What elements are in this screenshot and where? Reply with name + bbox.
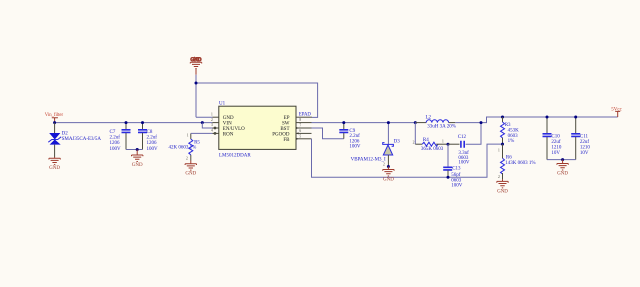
resistor R6: [498, 144, 536, 179]
IC U1 LM5012DDAR body: [219, 101, 296, 158]
svg-text:R3: R3: [505, 123, 511, 128]
node junction C7: [125, 121, 128, 124]
svg-text:2: 2: [186, 157, 188, 161]
pin 9 EP: [284, 116, 312, 121]
wire BST to C9: [312, 128, 344, 139]
svg-text:1210: 1210: [551, 145, 562, 150]
port Vin_filter: [45, 113, 64, 122]
ground top (IC GND / EPAD): [190, 58, 201, 75]
diode D3: [351, 123, 401, 167]
svg-text:100V: 100V: [349, 145, 361, 150]
svg-text:10V: 10V: [580, 151, 589, 156]
svg-text:2.2uf: 2.2uf: [147, 136, 158, 141]
resistor R5: [169, 133, 201, 160]
node junction C11/rail: [574, 116, 577, 119]
capacitor C12: [448, 123, 481, 166]
svg-text:22uf: 22uf: [580, 140, 590, 145]
svg-text:D3: D3: [394, 140, 401, 145]
svg-text:L2: L2: [426, 115, 432, 120]
svg-text:C8: C8: [147, 130, 153, 135]
svg-text:2.2uf: 2.2uf: [110, 136, 121, 141]
node junction D3/SW: [387, 121, 390, 124]
svg-text:SMAJ35CA-E3/5A: SMAJ35CA-E3/5A: [62, 137, 102, 142]
pin 4 RON: [211, 129, 234, 138]
capacitor C13: [443, 144, 463, 188]
node junction D3 gnd: [387, 165, 390, 168]
svg-text:EPAD: EPAD: [299, 113, 312, 118]
TVS diode D2: [48, 123, 101, 157]
svg-text:C10: C10: [551, 135, 560, 140]
node Vin junction at port: [53, 121, 56, 124]
svg-text:365K 0603: 365K 0603: [421, 147, 444, 152]
wire R5 to RON: [191, 132, 213, 134]
svg-text:SW: SW: [282, 122, 290, 127]
svg-text:C11: C11: [580, 135, 589, 140]
pin 2 VIN: [211, 118, 232, 127]
capacitor C7: [110, 123, 131, 152]
svg-text:1: 1: [187, 134, 189, 138]
wire L2 out to 5Vcc rail: [455, 117, 617, 123]
node C7/C8 gnd junction: [136, 148, 139, 151]
wire C10-C11 bottom: [547, 159, 576, 161]
svg-text:0603: 0603: [508, 134, 518, 139]
resistor R3: [501, 117, 520, 144]
wire VIN to EN/UVLO tie: [202, 123, 212, 128]
svg-text:VIN: VIN: [223, 122, 232, 127]
node junction C10/C11 gnd: [561, 158, 564, 161]
pin 6 PGOOD: [272, 129, 311, 137]
svg-text:143K 0603 1%: 143K 0603 1%: [505, 161, 535, 166]
node junction L2/R4 left: [414, 121, 417, 124]
svg-text:EP: EP: [284, 116, 290, 121]
pin 8 SW: [282, 118, 312, 126]
wire input rail: [55, 122, 213, 124]
svg-text:C7: C7: [110, 130, 116, 135]
node junction C8: [141, 121, 144, 124]
svg-text:10V: 10V: [551, 151, 560, 156]
svg-text:1206: 1206: [147, 141, 158, 146]
svg-text:100V: 100V: [451, 184, 463, 189]
node junction C12/rail: [480, 121, 483, 124]
svg-text:BST: BST: [280, 127, 289, 132]
svg-text:C13: C13: [452, 167, 461, 172]
wire FB run: [312, 139, 503, 178]
ground for D3: [383, 167, 394, 183]
pin 3 EN/UVLO: [211, 123, 245, 132]
node junction C9/SW: [342, 121, 345, 124]
svg-text:2: 2: [413, 140, 415, 144]
svg-text:RON: RON: [223, 132, 234, 137]
capacitor C10: [543, 117, 562, 160]
capacitor C8: [138, 123, 158, 152]
node junction R3/R6/FB: [501, 143, 504, 146]
svg-text:7: 7: [299, 124, 301, 128]
node junction C13/FB: [447, 176, 450, 179]
svg-text:56pf: 56pf: [451, 173, 461, 178]
capacitor C11: [571, 117, 590, 160]
svg-text:1210: 1210: [580, 145, 591, 150]
svg-text:1: 1: [442, 140, 444, 144]
svg-text:2: 2: [498, 175, 500, 179]
svg-text:FB: FB: [283, 138, 290, 143]
port 5Vcc: [611, 107, 622, 117]
pin 7 BST: [280, 124, 311, 132]
svg-text:R4: R4: [423, 138, 429, 143]
svg-text:1: 1: [211, 112, 213, 116]
svg-text:453K: 453K: [508, 128, 519, 133]
wire GND to pin1 and EPAD: [196, 75, 318, 118]
ground for C10/C11: [557, 160, 568, 177]
svg-text:3: 3: [211, 123, 213, 127]
svg-text:42K 0603 1%: 42K 0603 1%: [169, 145, 197, 150]
wire SW rail: [312, 122, 416, 124]
resistor R4: [413, 123, 448, 152]
ground for D2: [49, 157, 60, 171]
node junction R4/C12/C13: [447, 143, 450, 146]
svg-text:2: 2: [383, 162, 385, 166]
pin 5 FB: [283, 134, 311, 142]
svg-text:100V: 100V: [458, 161, 470, 166]
svg-text:1: 1: [498, 148, 500, 152]
svg-text:33uH 3A 20%: 33uH 3A 20%: [427, 125, 456, 130]
svg-text:8: 8: [299, 118, 301, 122]
svg-text:1206: 1206: [110, 141, 121, 146]
svg-text:6: 6: [299, 129, 301, 133]
svg-text:2: 2: [211, 118, 213, 122]
svg-text:100V: 100V: [147, 147, 159, 152]
svg-text:VBPAM12-M3_I: VBPAM12-M3_I: [351, 158, 386, 163]
svg-text:GND: GND: [223, 116, 234, 121]
wire C7-C8 bottom: [126, 149, 143, 151]
svg-text:4: 4: [211, 129, 213, 133]
svg-text:5: 5: [299, 134, 301, 138]
node junction C10/rail: [546, 116, 549, 119]
svg-text:EN/UVLO: EN/UVLO: [223, 127, 245, 132]
inductor L2: [415, 115, 456, 129]
node GND/EPAD junction: [195, 82, 198, 85]
svg-text:LM5012DDAR: LM5012DDAR: [219, 153, 251, 158]
ground for C7/C8: [132, 150, 143, 169]
ground for R6: [497, 179, 508, 194]
svg-text:1%: 1%: [508, 139, 515, 144]
svg-text:C12: C12: [458, 135, 467, 140]
svg-text:U1: U1: [219, 101, 226, 106]
svg-text:PGOOD: PGOOD: [272, 132, 290, 137]
node junction VIN: [201, 121, 204, 124]
capacitor C9: [339, 123, 361, 150]
svg-text:22uf: 22uf: [551, 140, 561, 145]
pin 1 GND: [211, 112, 234, 121]
node junction R3 top: [501, 116, 504, 119]
ground for R5: [185, 161, 196, 177]
svg-text:100V: 100V: [110, 147, 122, 152]
